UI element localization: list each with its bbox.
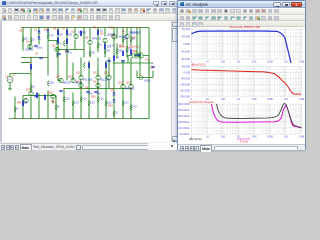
resistor R19 (13, 107, 15, 113)
svg-text:100: 100 (221, 59, 226, 63)
resistor RB5 blue body (80, 31, 82, 37)
svg-text:MJL3281: MJL3281 (100, 80, 110, 82)
svg-text:R7: R7 (62, 28, 66, 31)
svg-text:MJL4281: MJL4281 (131, 33, 141, 35)
transistor Q4 (87, 40, 91, 44)
wire vA6 (74, 28, 76, 35)
svg-text:ph(v(OUT)) Degrees: ph(v(OUT)) Degrees (189, 100, 215, 104)
resistor RB13 blue body (130, 50, 132, 56)
svg-text:80.000: 80.000 (182, 27, 191, 31)
blue bar input R (30, 64, 32, 70)
svg-text:R11: R11 (109, 27, 114, 30)
diode D2 (37, 37, 40, 39)
wire vC12 (105, 93, 107, 119)
svg-text:1K: 1K (132, 39, 135, 41)
svg-text:2N5550: 2N5550 (107, 35, 116, 37)
svg-text:10: 10 (115, 113, 118, 115)
resistor R6 (129, 37, 131, 43)
svg-text:R33: R33 (108, 105, 113, 108)
wire vA12 (104, 28, 106, 37)
wire input net y73 (10, 73, 31, 75)
resistor RB1 blue body (57, 30, 59, 36)
capacitor Cin (34, 96, 37, 97)
svg-text:VB1: VB1 (19, 30, 24, 33)
resistor R14 (96, 97, 98, 103)
svg-text:220: 220 (106, 51, 111, 53)
resistor R9 (46, 81, 48, 87)
transistor Q20 (23, 98, 27, 102)
svg-text:10: 10 (206, 134, 209, 138)
resistor RB7 blue body (88, 63, 90, 69)
svg-text:Q4: Q4 (85, 37, 89, 40)
wire vA3 (47, 28, 49, 58)
ground (8, 89, 12, 91)
wire top rail (21, 27, 149, 29)
transistor Q19 (128, 84, 132, 88)
capacitor C2 (57, 54, 60, 55)
wire source leads (10, 74, 15, 101)
svg-text:1K: 1K (99, 45, 102, 47)
wire vC11 (97, 89, 99, 119)
svg-text:1K: 1K (237, 59, 240, 63)
wire vA22 (139, 28, 141, 63)
wire vC3 (38, 94, 40, 119)
resistor R18 (129, 105, 131, 111)
svg-text:100K: 100K (267, 97, 273, 101)
svg-text:0.33: 0.33 (99, 99, 104, 101)
capacitor C10 (121, 61, 124, 62)
svg-text:1000u: 1000u (144, 81, 151, 83)
wire vC14 (122, 93, 124, 119)
svg-text:0.33: 0.33 (124, 103, 129, 105)
wire mid bus y57 (21, 57, 48, 59)
transistor Q5 (102, 38, 106, 42)
svg-text:dB(v(IN1)): dB(v(IN1)) (189, 137, 202, 141)
svg-text:Q13: Q13 (104, 72, 109, 75)
curve phase red (192, 70, 302, 94)
svg-text:Q1: Q1 (26, 41, 30, 44)
svg-text:0.000: 0.000 (183, 71, 190, 75)
wire vC4 (47, 91, 49, 119)
resistor R3 (46, 34, 48, 40)
wire lower bus y95 (23, 95, 56, 97)
wire vA2 (38, 28, 40, 45)
wire vB2 (66, 58, 68, 81)
resistor RB14 blue body (22, 101, 24, 107)
resistor RB8 blue body (105, 63, 107, 69)
svg-text:BD139: BD139 (63, 83, 71, 85)
wire vC15 (130, 91, 132, 119)
svg-text:Q7: Q7 (122, 31, 126, 34)
svg-text:-336.000: -336.000 (179, 95, 190, 99)
curve black (217, 103, 302, 127)
svg-text:BD140: BD140 (75, 83, 83, 85)
wire vB6 (97, 58, 99, 89)
transistor Q13 (106, 75, 110, 79)
svg-text:1M: 1M (284, 97, 288, 101)
resistor R16 (112, 111, 114, 117)
resistor RB11 blue body (97, 30, 99, 36)
resistor R8 (29, 85, 31, 91)
svg-text:10K: 10K (252, 134, 257, 138)
svg-text:Q10: Q10 (68, 76, 73, 79)
resistor R2 (29, 38, 31, 44)
wire vB13 (30, 58, 32, 93)
svg-text:220: 220 (59, 35, 64, 37)
wire vC8 (72, 93, 74, 119)
svg-text:47: 47 (126, 52, 129, 54)
svg-text:Q12: Q12 (93, 72, 98, 75)
resistor R4 (96, 43, 98, 49)
svg-text:0.33: 0.33 (90, 103, 95, 105)
svg-text:68: 68 (57, 107, 60, 109)
curve magenta (212, 104, 302, 128)
wire vA20 (122, 28, 124, 46)
wire vC2 (30, 97, 32, 119)
svg-text:-40.000: -40.000 (181, 50, 191, 54)
svg-text:MPSA42: MPSA42 (92, 38, 102, 41)
transistor Q1 (27, 44, 31, 48)
svg-text:47n: 47n (97, 94, 102, 96)
wire vA15 (116, 28, 118, 39)
wire vB4 (80, 58, 82, 89)
resistor R22 (103, 49, 105, 55)
svg-text:150.000m: 150.000m (178, 120, 191, 124)
wire vA21 (130, 28, 132, 46)
resistor R12 (79, 97, 81, 103)
svg-text:10: 10 (206, 59, 209, 63)
wire vA9 (89, 28, 91, 41)
resistor R13 (87, 101, 89, 107)
wire vB15 (56, 53, 58, 58)
svg-text:Q11: Q11 (76, 72, 81, 75)
svg-text:Q3: Q3 (71, 31, 75, 34)
resistor RB4 blue body (66, 39, 68, 45)
wire vA5 (66, 28, 68, 58)
svg-text:12K: 12K (24, 39, 29, 41)
wire vC9 (80, 89, 82, 119)
svg-text:100.000m: 100.000m (178, 126, 191, 130)
wire vA16 (116, 44, 118, 58)
capacitor C6 (86, 92, 89, 93)
wire vA10 (89, 46, 91, 58)
wire vB9 (113, 61, 115, 91)
resistor RB15 blue body (113, 56, 115, 62)
wire output bus y62.5 (113, 62, 153, 64)
svg-text:10M: 10M (299, 134, 304, 138)
svg-text:250.000m: 250.000m (178, 108, 191, 112)
capacitor C5 (107, 61, 110, 62)
transistor Q11 (78, 75, 82, 79)
capacitor C7 (94, 92, 97, 93)
wire vC1 (22, 96, 24, 119)
svg-text:4.7K: 4.7K (49, 36, 54, 38)
svg-text:1K: 1K (32, 87, 35, 89)
resistor R27 (62, 41, 64, 47)
resistor RB9 blue body (36, 93, 38, 99)
capacitor C3 (65, 51, 68, 52)
wire vB12 (139, 63, 141, 76)
wire vC6 (55, 96, 57, 119)
transistor Q15 (50, 94, 54, 98)
wire vB16 (48, 41, 57, 45)
svg-text:Q9: Q9 (56, 76, 60, 79)
wire right rail (148, 28, 150, 119)
wire vA8 (83, 28, 85, 58)
wire bottom rail (9, 118, 149, 120)
resistor R7 (138, 53, 140, 59)
svg-text:200.000m: 200.000m (178, 114, 191, 118)
transistor Q17 (95, 83, 99, 87)
capacitor C8 electrolytic (139, 76, 143, 80)
svg-text:D1: D1 (34, 29, 38, 32)
svg-text:dB(v(OUT)): dB(v(OUT)) (191, 62, 206, 66)
svg-text:50.000m: 50.000m (180, 132, 191, 136)
svg-text:2N5686: 2N5686 (25, 50, 34, 52)
transistor Q3 (73, 34, 77, 38)
svg-text:-84.000: -84.000 (181, 77, 191, 81)
wire vB1 (58, 58, 61, 81)
resistor RB3 blue body (57, 38, 59, 44)
svg-text:Q19: Q19 (126, 82, 131, 85)
svg-text:D3: D3 (110, 89, 114, 92)
svg-text:2N5550: 2N5550 (78, 33, 87, 35)
resistor R17 (121, 101, 123, 107)
svg-text:100K: 100K (267, 134, 273, 138)
svg-text:MJL1302: MJL1302 (125, 89, 135, 91)
svg-text:R30: R30 (91, 96, 96, 99)
wire vA11 (97, 28, 99, 53)
wire vB8 (108, 58, 110, 89)
svg-text:47u: 47u (58, 44, 63, 46)
wire vB5 (88, 61, 90, 93)
transistor Q2 (54, 47, 58, 51)
resistor R26 (82, 63, 84, 69)
transistor Q12 (95, 75, 99, 79)
svg-text:0.33: 0.33 (107, 103, 112, 105)
resistor R36 body (134, 55, 140, 57)
svg-text:10K: 10K (252, 59, 257, 63)
wire vB14 (29, 45, 31, 50)
resistor RB2 blue body (66, 30, 68, 36)
transistor Q6 (111, 34, 115, 38)
svg-text:C4: C4 (35, 53, 39, 56)
wire vB7 (105, 61, 107, 93)
wire output net y77 (137, 63, 153, 78)
svg-text:Out: Out (145, 59, 149, 62)
transistor Q18 (120, 84, 124, 88)
svg-text:-168.000: -168.000 (179, 83, 190, 87)
svg-text:220: 220 (91, 53, 96, 55)
wire vA7 (74, 40, 76, 50)
svg-text:R40: R40 (17, 102, 22, 105)
svg-text:1M: 1M (284, 134, 288, 138)
diode D4 (112, 100, 115, 102)
resistor R21 (88, 51, 90, 57)
svg-text:Frecventa_250∕250 (1M): Frecventa_250∕250 (1M) (230, 26, 260, 29)
svg-text:10M: 10M (299, 97, 304, 101)
wire input top y62 (21, 62, 31, 64)
wire vA4 (57, 28, 59, 58)
wire vA0 (22, 28, 24, 51)
wire vC13 (113, 91, 115, 119)
resistor R23 (115, 49, 117, 55)
svg-text:1K: 1K (237, 97, 240, 101)
svg-text:100: 100 (118, 51, 123, 53)
wire vA1 (30, 28, 32, 45)
wire vA18 (126, 40, 128, 58)
resistor RB6 blue body (122, 51, 124, 57)
wire L1 leads (128, 56, 149, 64)
plot 3 grid (178, 102, 305, 138)
svg-text:100K: 100K (267, 59, 273, 63)
svg-text:0.000: 0.000 (183, 42, 190, 46)
curve gain blue (192, 31, 292, 63)
svg-text:100p: 100p (37, 48, 43, 50)
resistor R11 (71, 101, 73, 107)
svg-text:Q5: Q5 (100, 33, 104, 36)
transistor Q10 (70, 78, 74, 82)
svg-text:1M: 1M (284, 59, 288, 63)
wire vC0 (14, 101, 16, 119)
inductor L1 box (132, 53, 143, 58)
resistor R1 (21, 37, 23, 43)
plot 2 grid (179, 65, 304, 101)
source V1 (7, 77, 13, 83)
svg-text:0.33: 0.33 (82, 99, 87, 101)
capacitor C8 (151, 67, 154, 68)
capacitor C9 (59, 91, 62, 92)
svg-text:100: 100 (221, 97, 226, 101)
svg-text:10K: 10K (68, 35, 73, 37)
svg-text:84.000: 84.000 (182, 65, 191, 69)
resistor R24 (125, 47, 127, 53)
capacitor C4 (39, 58, 42, 59)
plot 1 grid (181, 27, 305, 63)
svg-text:100n: 100n (49, 83, 55, 85)
wire vC10 (88, 93, 90, 119)
svg-text:1K: 1K (100, 31, 103, 33)
wire vB11 (130, 58, 132, 91)
svg-text:R41: R41 (51, 101, 56, 104)
wire vB0 (47, 58, 49, 76)
diode D3 (112, 93, 115, 95)
resistor RB10 blue body (44, 95, 46, 101)
svg-text:Q15: Q15 (48, 92, 53, 95)
diode D1 (37, 31, 40, 33)
svg-text:47u: 47u (68, 53, 73, 55)
node junction dots (14, 27, 149, 119)
diode D5 (46, 30, 49, 32)
resistor R10 (62, 97, 64, 103)
svg-text:10M: 10M (299, 59, 304, 63)
wire vB10 (122, 61, 124, 93)
wire vA13 (104, 42, 106, 58)
transistor Q14 (28, 91, 32, 95)
svg-text:F (Hz): F (Hz) (240, 139, 248, 143)
svg-text:1K: 1K (32, 40, 35, 42)
transistor Q9 (58, 78, 62, 82)
transistor Q16 (78, 83, 82, 87)
svg-text:Q2: Q2 (52, 45, 56, 48)
svg-text:0.33: 0.33 (65, 99, 70, 101)
svg-text:-252.000: -252.000 (179, 89, 190, 93)
svg-text:Q18: Q18 (118, 82, 123, 85)
svg-text:Q14: Q14 (26, 89, 31, 92)
wire vA17 (126, 28, 128, 35)
resistor R15 (104, 101, 106, 107)
resistor RB12 blue body (104, 44, 106, 50)
resistor R20 (54, 105, 56, 111)
svg-text:10K: 10K (252, 97, 257, 101)
svg-text:R5: R5 (53, 28, 57, 31)
svg-text:R36: R36 (132, 50, 137, 53)
transistor Q7 (124, 34, 128, 38)
svg-text:0.33: 0.33 (132, 107, 137, 109)
wire vC7 (63, 89, 65, 119)
svg-text:40.000: 40.000 (182, 35, 191, 39)
svg-text:100: 100 (221, 134, 226, 138)
svg-text:C6: C6 (85, 87, 89, 90)
capacitor C1 (34, 46, 37, 47)
svg-text:10K: 10K (24, 103, 29, 105)
svg-text:1K: 1K (16, 109, 19, 111)
svg-text:-80.000: -80.000 (181, 57, 191, 61)
svg-text:68: 68 (116, 58, 119, 60)
wire vB3 (72, 63, 74, 81)
wire vA19 (136, 28, 138, 56)
wire vA14 (113, 28, 115, 58)
svg-text:MJL1302: MJL1302 (83, 80, 93, 82)
wire bus y49 (56, 49, 84, 51)
wire vC5 (52, 100, 54, 104)
svg-text:0.33: 0.33 (74, 103, 79, 105)
svg-text:R9: R9 (93, 27, 97, 30)
resistor R5 (121, 37, 123, 43)
wire bus y88 (64, 88, 131, 90)
svg-text:Q17: Q17 (93, 81, 98, 84)
